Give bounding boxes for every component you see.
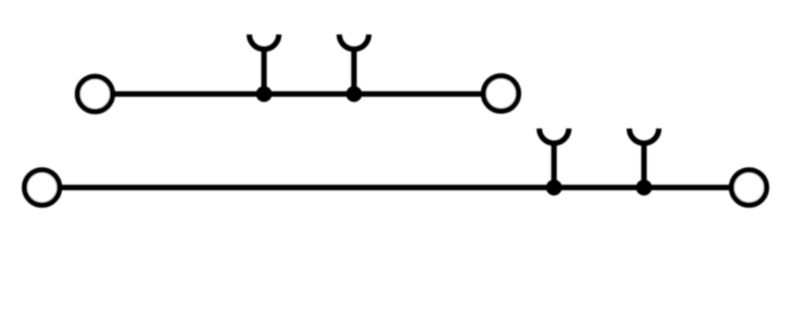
wire: bottom rail <box>42 185 749 191</box>
junction dot on bottom rail (right) <box>636 180 652 196</box>
test socket P1 <box>249 35 278 95</box>
wire: top rail <box>95 91 501 97</box>
junction dot on top rail (right) <box>346 86 362 102</box>
test socket P3 <box>539 129 569 188</box>
terminal circle: top-left <box>78 77 113 112</box>
junction dot on bottom rail (left) <box>546 180 562 196</box>
test socket P4 <box>629 129 659 188</box>
junction dot on top rail (left) <box>256 86 272 102</box>
test socket P2 <box>339 35 369 95</box>
terminal circle: top-right <box>484 76 519 111</box>
terminal circle: bottom-right <box>732 170 767 205</box>
terminal circle: bottom-left <box>25 170 60 205</box>
